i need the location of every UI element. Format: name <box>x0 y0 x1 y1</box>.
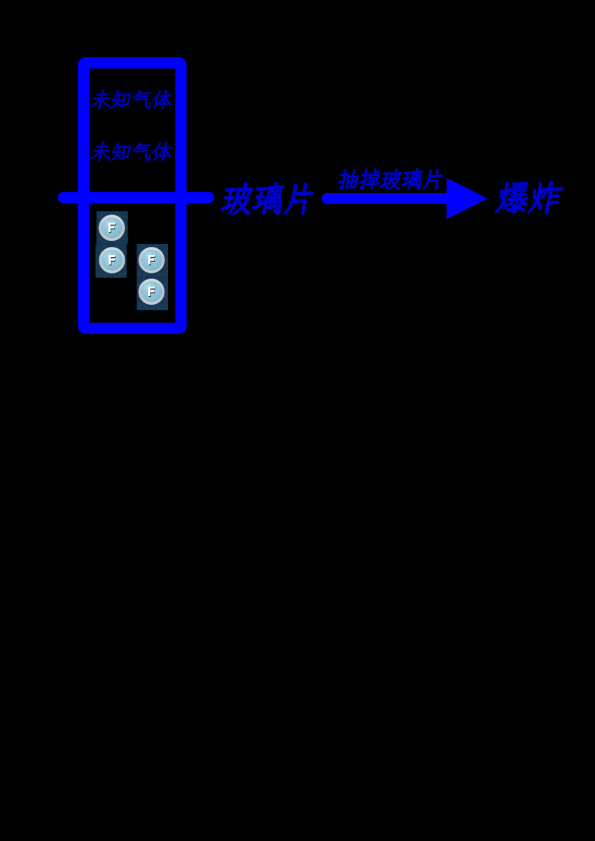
F atom tile 1 (F sphere on dark panel) <box>97 211 128 244</box>
F atom tile 4 (F sphere on dark panel) <box>137 277 168 310</box>
explosion text (bao zha) <box>495 181 563 214</box>
F atom tile 3 (F sphere on dark panel) <box>137 244 168 277</box>
arrow shaft <box>327 193 446 204</box>
gas label 2 (unknown gas) <box>90 142 171 161</box>
F atom tile 2 (F sphere on dark panel) <box>96 244 127 277</box>
glass plate text (bo li pian) <box>221 182 313 214</box>
arrow head <box>447 178 488 219</box>
arrow label (remove glass plate) <box>339 169 443 190</box>
glass plate line through container <box>63 192 209 203</box>
gas label 1 (unknown gas) <box>90 90 171 109</box>
gas container (blue rectangle vessel) <box>84 63 181 329</box>
